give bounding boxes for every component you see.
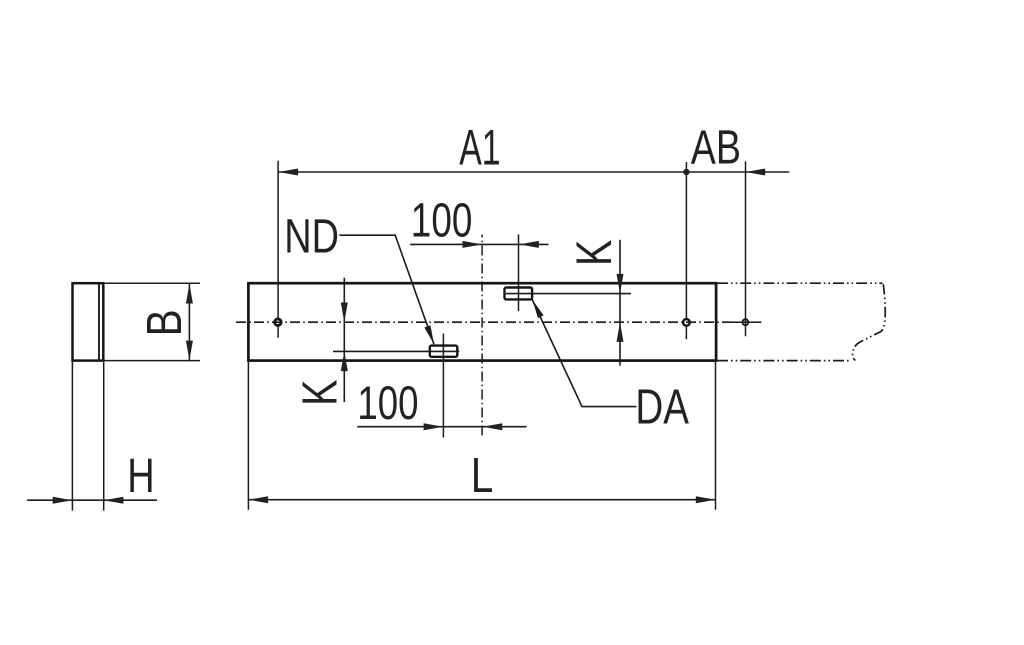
dimension B arrow up [186, 284, 193, 304]
centerline main horizontal [236, 321, 761, 323]
reference centerline vertical (mid between slots) [481, 235, 483, 438]
leader DA arrow [532, 300, 543, 319]
svg-text:K: K [293, 379, 347, 406]
side view inner edge line [98, 284, 100, 359]
dimension AB tail line [686, 171, 789, 173]
slot lower [430, 346, 458, 357]
dimension 100 bottom arrow right [424, 423, 444, 430]
slot upper horizontal centerline [506, 293, 631, 295]
dimension K right line [619, 240, 621, 366]
dimension K left arrow up [341, 351, 348, 371]
slot lower vertical centerline [442, 334, 444, 438]
svg-text:100: 100 [357, 377, 418, 429]
extension line side bottom (for B) [104, 360, 200, 362]
svg-text:A1: A1 [459, 120, 500, 176]
dimension B line [188, 284, 190, 361]
main view outline [248, 283, 716, 360]
leader ND line [339, 235, 434, 344]
dimension L line [248, 499, 715, 501]
slot lower horizontal centerline [333, 350, 459, 352]
hole3 short horizontal centerline [728, 321, 761, 323]
extension line L left [247, 362, 249, 510]
dimension H arrow left [104, 497, 124, 504]
dimension 100 top arrow right [463, 241, 483, 248]
dimension L arrow right [696, 496, 716, 503]
svg-text:L: L [471, 449, 494, 503]
leader ND arrow [424, 325, 434, 344]
extension line H right [103, 362, 105, 511]
dimension 100 bottom line [357, 426, 526, 428]
extension line hole2 vertical [685, 162, 687, 319]
hole 1 [275, 319, 282, 326]
dimension K left line [343, 278, 345, 402]
leader DA line [532, 299, 636, 406]
dimension K left arrow down [341, 303, 348, 323]
dimension A1 arrow left [278, 169, 298, 176]
phantom continuation bottom line [717, 360, 850, 362]
dimension 100 top line [410, 243, 548, 245]
svg-text:K: K [566, 240, 623, 266]
dimension A1 end dot [683, 169, 689, 175]
hole 3 [742, 319, 748, 325]
svg-text:AB: AB [691, 121, 741, 175]
dimension L arrow left [248, 496, 268, 503]
svg-text:B: B [136, 309, 192, 336]
dimension K right arrow down [617, 274, 624, 294]
extension line L right [715, 362, 717, 510]
dimension 100 top arrow left [519, 241, 539, 248]
extension line hole1 vertical [277, 161, 279, 319]
dimension A1 line [278, 171, 686, 173]
dimension H line [27, 499, 157, 501]
side view outline [73, 283, 104, 360]
svg-text:H: H [127, 450, 154, 503]
extension line side top (for B) [104, 282, 200, 284]
slot upper [505, 288, 533, 300]
svg-text:100: 100 [411, 194, 473, 248]
dimension B arrow down [186, 341, 193, 361]
hole 2 [683, 319, 690, 326]
phantom break line [853, 284, 886, 360]
dimension AB arrow [746, 169, 766, 176]
phantom continuation top line [717, 282, 883, 284]
slot upper vertical centerline [518, 235, 520, 312]
extension line H left [71, 362, 73, 511]
extension line hole3 vertical [745, 161, 747, 336]
svg-text:DA: DA [635, 380, 689, 434]
svg-text:ND: ND [284, 210, 339, 263]
dimension K right arrow up [617, 322, 624, 342]
dimension 100 bottom arrow left [483, 423, 503, 430]
dimension H arrow right [53, 497, 73, 504]
